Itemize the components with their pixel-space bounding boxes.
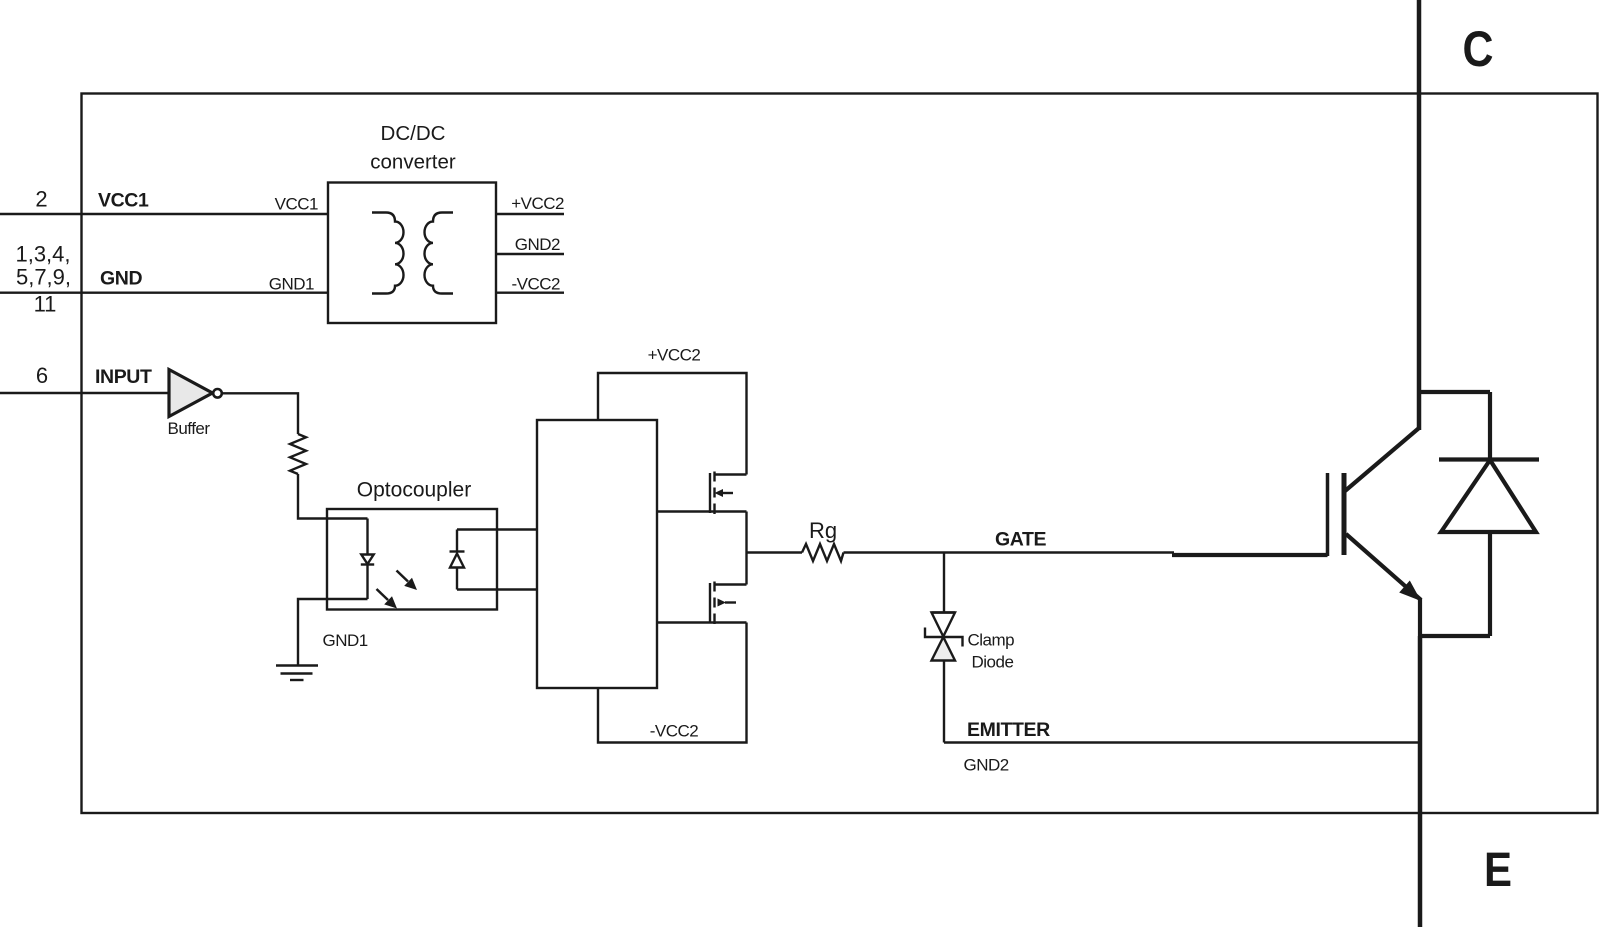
IGBT emitter arrowhead (1399, 581, 1421, 602)
wire +VCC2 stub (496, 213, 564, 215)
pin numbers 1,3,4,5,7,9,11 (15, 242, 71, 317)
svg-text:Buffer: Buffer (168, 419, 211, 438)
svg-text:+VCC2: +VCC2 (511, 194, 564, 213)
resistor R1 (290, 434, 306, 474)
buffer bubble (213, 389, 222, 398)
svg-text:GND2: GND2 (964, 756, 1009, 775)
wire pin2 VCC1 (0, 213, 328, 215)
wire LED cathode to ground (298, 599, 368, 665)
photodiode D2 (456, 530, 458, 552)
svg-text:-VCC2: -VCC2 (650, 722, 699, 741)
wire resistor to LED (298, 474, 368, 519)
transformer T1 secondary winding (424, 213, 453, 294)
svg-text:2: 2 (35, 187, 47, 212)
IGBT Q3 (1328, 0, 1491, 927)
svg-text:VCC1: VCC1 (275, 195, 318, 214)
svg-text:1,3,4,: 1,3,4, (15, 242, 70, 267)
clamp diode TVS (932, 611, 956, 613)
svg-text:GATE: GATE (995, 529, 1047, 551)
freewheel diode D3 (1439, 392, 1539, 636)
svg-text:GND2: GND2 (515, 235, 560, 254)
ground GND1 (276, 664, 318, 666)
svg-text:EMITTER: EMITTER (967, 719, 1050, 741)
wire IGBT gate lead (1172, 553, 1328, 557)
svg-text:Optocoupler: Optocoupler (357, 479, 471, 502)
svg-text:5,7,9,: 5,7,9, (16, 265, 71, 290)
svg-text:GND: GND (100, 268, 142, 290)
svg-text:converter: converter (370, 151, 456, 174)
wire Rg to gate (844, 551, 1175, 553)
transformer T1 primary winding (372, 213, 404, 294)
svg-text:DC/DC: DC/DC (381, 122, 446, 145)
mosfet Q2 lower (709, 583, 711, 623)
svg-text:VCC1: VCC1 (98, 190, 149, 212)
svg-text:GND1: GND1 (269, 275, 314, 294)
resistor Rg (802, 544, 844, 561)
wire totem pole output (745, 512, 747, 585)
wire pin6 INPUT (0, 392, 168, 394)
label DC/DC converter (370, 122, 456, 174)
module outer box (82, 94, 1598, 814)
svg-text:GND1: GND1 (323, 631, 368, 650)
wire -VCC2 stub (496, 292, 564, 294)
svg-text:Rg: Rg (809, 518, 837, 543)
wire -VCC2 rail (598, 623, 747, 743)
svg-text:Diode: Diode (972, 653, 1014, 672)
svg-text:E: E (1484, 844, 1512, 897)
buffer U1 (169, 370, 213, 417)
svg-text:INPUT: INPUT (95, 366, 152, 388)
DC/DC converter box (328, 183, 496, 324)
wire clamp branch (943, 553, 945, 613)
svg-text:6: 6 (36, 363, 48, 388)
svg-text:Clamp: Clamp (968, 631, 1015, 650)
wire pin GND (0, 292, 328, 294)
wire clamp to emitter (943, 661, 945, 743)
svg-text:+VCC2: +VCC2 (648, 346, 701, 365)
wire GND2 stub (496, 253, 564, 255)
mosfet Q1 upper (709, 473, 711, 513)
wire emitter rail (944, 741, 1419, 743)
svg-text:11: 11 (34, 292, 57, 317)
svg-text:C: C (1463, 21, 1494, 77)
wire photodiode bottom to driver (457, 588, 537, 590)
svg-text:-VCC2: -VCC2 (511, 275, 560, 294)
light arrows (377, 571, 418, 609)
wire photodiode top to driver (457, 528, 537, 530)
driver amplifier U2 (537, 420, 657, 688)
LED D1 (366, 519, 368, 555)
wire +VCC2 rail (598, 373, 747, 475)
label Clamp Diode (968, 631, 1015, 672)
wire buffer output (222, 393, 298, 434)
optocoupler box (327, 509, 497, 610)
